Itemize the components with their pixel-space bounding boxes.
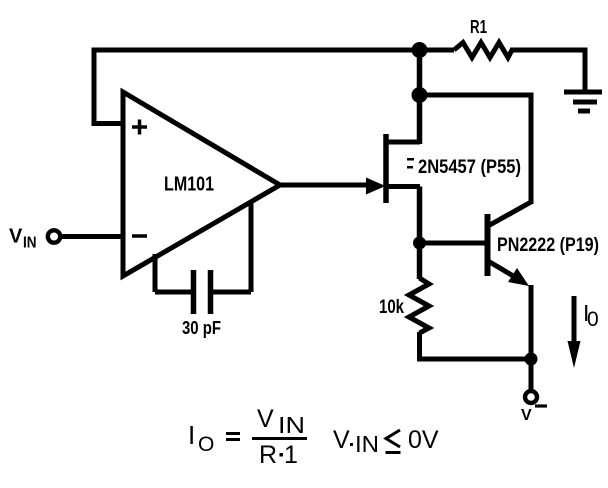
label 2N5457 (P55): [407, 156, 521, 178]
svg-text:I: I: [188, 420, 195, 450]
svg-text:V: V: [257, 405, 274, 433]
wire: [529, 285, 534, 359]
svg-text:0: 0: [587, 308, 599, 331]
wire: [62, 234, 123, 239]
svg-text:PN2222 (P19): PN2222 (P19): [497, 234, 599, 256]
node: [525, 353, 538, 366]
node: [412, 42, 428, 58]
wire: [278, 183, 368, 188]
transistor Q1 2N5457: [366, 134, 420, 203]
terminal VIN: [9, 226, 60, 252]
terminal V-: [521, 391, 547, 424]
svg-text:V: V: [333, 426, 350, 454]
current arrow IO: [568, 296, 599, 368]
wire: [420, 95, 532, 204]
svg-text:1: 1: [284, 441, 298, 469]
wire: [510, 50, 585, 91]
wire: [420, 241, 486, 246]
svg-text:2N5457 (P55): 2N5457 (P55): [418, 156, 521, 178]
node: [413, 237, 426, 250]
formula: [188, 405, 439, 469]
svg-text:IN: IN: [23, 235, 37, 252]
svg-text:V: V: [521, 407, 532, 424]
svg-text:30 pF: 30 pF: [182, 318, 221, 338]
svg-text:0V: 0V: [408, 426, 439, 454]
transistor Q2 PN2222: [488, 202, 532, 286]
svg-text:LM101: LM101: [164, 174, 214, 196]
svg-text:10k: 10k: [379, 297, 404, 318]
node: [412, 87, 428, 103]
wire: [417, 50, 423, 95]
wire: [420, 332, 532, 359]
resistor R1: [454, 43, 512, 58]
svg-text:V: V: [9, 226, 23, 248]
svg-text:R: R: [259, 441, 277, 469]
wire: [417, 243, 423, 279]
svg-text:IN: IN: [278, 412, 305, 438]
resistor 10k: [409, 278, 429, 333]
wire: [529, 359, 534, 390]
wire: [417, 95, 423, 144]
ground: [564, 92, 602, 111]
op-amp U1: [123, 92, 280, 276]
svg-text:IN: IN: [355, 431, 379, 457]
svg-text:R1: R1: [470, 17, 487, 37]
capacitor C1 30pF: [155, 203, 251, 314]
svg-text:O: O: [198, 433, 214, 456]
wire: [94, 50, 454, 124]
wire: [417, 187, 423, 244]
